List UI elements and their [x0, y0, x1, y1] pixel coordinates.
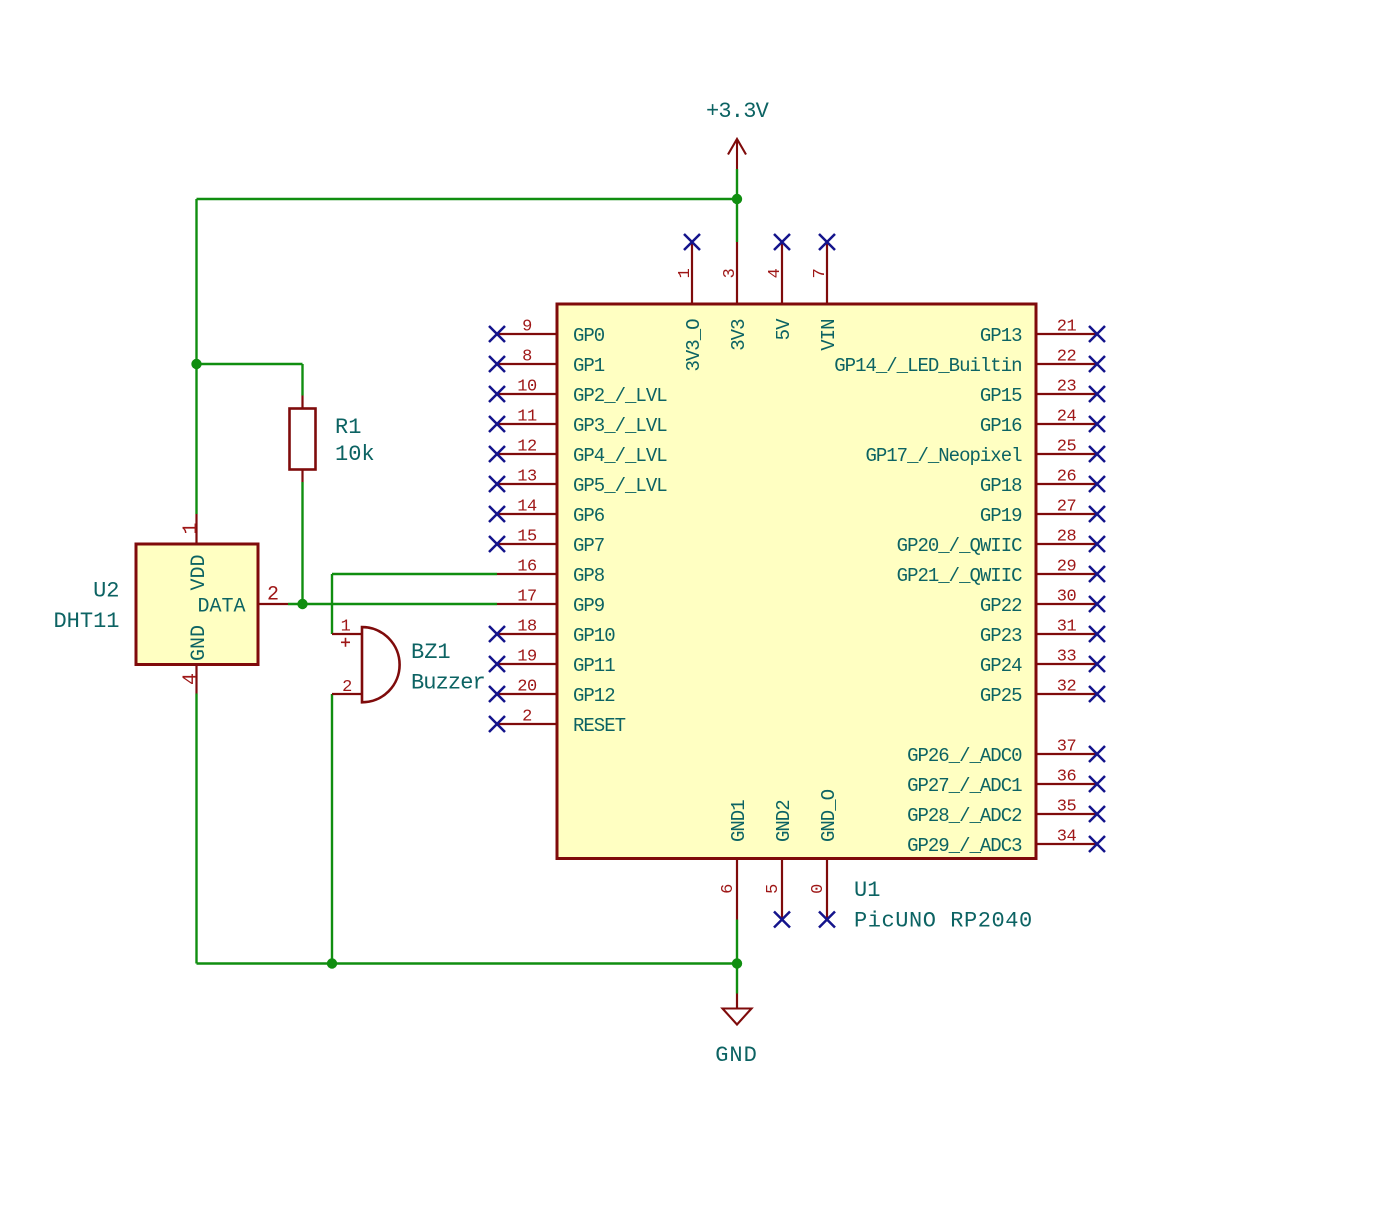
svg-text:2: 2: [522, 708, 532, 727]
svg-text:23: 23: [1057, 378, 1077, 397]
junction R1 / DATA / GP9 node: [297, 599, 307, 609]
svg-text:GP1: GP1: [573, 355, 605, 377]
svg-text:GP24: GP24: [980, 655, 1022, 677]
svg-text:GP23: GP23: [980, 625, 1022, 647]
svg-text:GP11: GP11: [573, 655, 615, 677]
svg-text:GP2_/_LVL: GP2_/_LVL: [573, 385, 667, 407]
U1 pin 31 (GP23): [980, 618, 1105, 648]
U1 pin 27 (GP19): [980, 498, 1105, 528]
U1 pin 7 (VIN): [811, 234, 840, 351]
U1 pin 25 (GP17_/_Neopixel): [865, 438, 1105, 468]
svg-text:R1: R1: [335, 415, 361, 440]
svg-text:1: 1: [180, 522, 203, 534]
U1 pin 32 (GP25): [980, 678, 1105, 708]
svg-text:GP20_/_QWIIC: GP20_/_QWIIC: [897, 535, 1022, 557]
U1 pin 33 (GP24): [980, 648, 1105, 678]
svg-text:3: 3: [721, 268, 740, 278]
svg-text:GP13: GP13: [980, 325, 1022, 347]
svg-text:15: 15: [517, 528, 537, 547]
U1 pin 35 (GP28_/_ADC2): [907, 798, 1105, 828]
svg-text:13: 13: [517, 468, 537, 487]
svg-text:30: 30: [1057, 588, 1077, 607]
wire junction to R1 horizontal: [197, 363, 303, 365]
U1 pin 17 (GP9): [497, 588, 605, 618]
svg-text:4: 4: [766, 268, 785, 278]
svg-text:GP12: GP12: [573, 685, 615, 707]
svg-text:32: 32: [1057, 678, 1076, 697]
wire GND net bottom horizontal: [197, 962, 738, 964]
svg-text:21: 21: [1057, 318, 1077, 337]
U1 pin 34 (GP29_/_ADC3): [907, 828, 1105, 858]
U1 pin 22 (GP14_/_LED_Builtin): [834, 348, 1105, 378]
svg-text:GP29_/_ADC3: GP29_/_ADC3: [907, 835, 1022, 857]
svg-text:10: 10: [517, 378, 537, 397]
svg-text:GP26_/_ADC0: GP26_/_ADC0: [907, 745, 1022, 767]
wire buzzer pin 2 down: [331, 694, 333, 964]
svg-text:8: 8: [522, 348, 532, 367]
wire R1 bottom to DATA net: [301, 482, 303, 604]
U2 pin 4 (GND): [180, 625, 211, 694]
svg-text:DATA: DATA: [198, 595, 246, 618]
U2 pin 2 (DATA): [198, 584, 289, 619]
svg-text:GP3_/_LVL: GP3_/_LVL: [573, 415, 667, 437]
U1 pin 30 (GP22): [980, 588, 1105, 618]
svg-text:GND: GND: [715, 1043, 758, 1068]
svg-text:GP0: GP0: [573, 325, 605, 347]
svg-text:2: 2: [267, 584, 279, 607]
svg-text:36: 36: [1057, 768, 1077, 787]
junction buzzer pin 2 / GND net: [327, 958, 337, 968]
U1 pin 20 (GP12): [489, 678, 615, 708]
svg-text:Buzzer: Buzzer: [411, 670, 485, 695]
svg-text:9: 9: [522, 318, 532, 337]
svg-text:U1: U1: [854, 878, 880, 903]
svg-text:18: 18: [517, 618, 537, 637]
svg-text:24: 24: [1057, 408, 1077, 427]
U1 pin 2 (RESET): [489, 708, 626, 738]
U1 pin 21 (GP13): [980, 318, 1105, 348]
svg-text:VIN: VIN: [818, 320, 840, 351]
U1 pin 16 (GP8): [497, 558, 605, 588]
svg-text:26: 26: [1057, 468, 1077, 487]
U1 pin 4 (5V): [766, 234, 795, 340]
svg-text:GP14_/_LED_Builtin: GP14_/_LED_Builtin: [834, 355, 1021, 377]
R1 pin 1 (top): [301, 396, 303, 409]
wire down to R1 top: [301, 364, 303, 396]
svg-text:GP28_/_ADC2: GP28_/_ADC2: [907, 805, 1022, 827]
svg-text:5V: 5V: [773, 318, 795, 340]
wire VDD net left vertical: [195, 199, 197, 514]
svg-text:GP6: GP6: [573, 505, 605, 527]
svg-text:GP18: GP18: [980, 475, 1022, 497]
svg-text:GP5_/_LVL: GP5_/_LVL: [573, 475, 667, 497]
wire to GND symbol: [736, 964, 738, 994]
U1 pin 19 (GP11): [489, 648, 615, 678]
svg-text:DHT11: DHT11: [53, 609, 119, 634]
U1 pin 11 (GP3_/_LVL): [489, 408, 667, 438]
IC U1 PicUNO RP2040 body: [557, 304, 1036, 859]
svg-text:5: 5: [764, 884, 783, 894]
junction VDD net to R1 branch: [191, 359, 201, 369]
svg-text:33: 33: [1057, 648, 1077, 667]
U1 pin 12 (GP4_/_LVL): [489, 438, 667, 468]
svg-text:RESET: RESET: [573, 715, 626, 737]
U1 pin 18 (GP10): [489, 618, 615, 648]
svg-text:14: 14: [517, 498, 537, 517]
junction at 3V3 / VDD net: [732, 194, 742, 204]
buzzer BZ1 body: [362, 627, 400, 702]
svg-text:VDD: VDD: [188, 555, 211, 591]
wire U2 GND down: [195, 694, 197, 964]
svg-text:GP25: GP25: [980, 685, 1022, 707]
U1 pin 24 (GP16): [980, 408, 1105, 438]
svg-text:0: 0: [809, 884, 828, 894]
svg-text:20: 20: [517, 678, 537, 697]
U1 pin 23 (GP15): [980, 378, 1105, 408]
svg-text:7: 7: [811, 269, 830, 279]
svg-text:2: 2: [342, 678, 352, 697]
svg-text:11: 11: [517, 408, 537, 427]
svg-text:35: 35: [1057, 798, 1077, 817]
svg-text:22: 22: [1057, 348, 1076, 367]
svg-text:12: 12: [517, 438, 536, 457]
junction GND1 / GND net: [732, 958, 742, 968]
svg-text:1: 1: [676, 268, 695, 278]
svg-text:GP10: GP10: [573, 625, 615, 647]
wire VDD net top horizontal: [197, 198, 738, 200]
svg-text:GND1: GND1: [728, 800, 750, 842]
U1 pin 28 (GP20_/_QWIIC): [897, 528, 1105, 558]
U1 pin 13 (GP5_/_LVL): [489, 468, 667, 498]
svg-text:3V3: 3V3: [728, 319, 750, 351]
svg-text:+3.3V: +3.3V: [706, 99, 770, 124]
svg-text:GND: GND: [188, 625, 211, 661]
svg-text:GP15: GP15: [980, 385, 1022, 407]
wire GP8 down to buzzer pin 1: [331, 574, 333, 634]
svg-text:GP8: GP8: [573, 565, 605, 587]
U1 pin 15 (GP7): [489, 528, 604, 558]
svg-text:GP22: GP22: [980, 595, 1022, 617]
svg-text:34: 34: [1057, 828, 1077, 847]
svg-text:37: 37: [1057, 738, 1076, 757]
U1 pin 10 (GP2_/_LVL): [489, 378, 667, 408]
resistor R1 body: [290, 409, 316, 470]
U1 pin 3 (3V3): [721, 242, 750, 351]
power symbol +3.3V: [706, 99, 770, 169]
svg-text:BZ1: BZ1: [411, 640, 451, 665]
wire DATA to GP9: [288, 603, 497, 605]
svg-text:GND2: GND2: [773, 800, 795, 842]
wire 3V3 pin to +3.3V symbol: [736, 169, 738, 242]
svg-text:27: 27: [1057, 498, 1076, 517]
svg-text:3V3_O: 3V3_O: [683, 319, 705, 372]
svg-text:31: 31: [1057, 618, 1077, 637]
svg-text:GP4_/_LVL: GP4_/_LVL: [573, 445, 667, 467]
svg-text:19: 19: [517, 648, 537, 667]
U1 pin 8 (GP1): [489, 348, 605, 378]
U1 pin 29 (GP21_/_QWIIC): [897, 558, 1105, 588]
svg-text:GP27_/_ADC1: GP27_/_ADC1: [907, 775, 1022, 797]
svg-text:28: 28: [1057, 528, 1077, 547]
svg-text:10k: 10k: [335, 442, 375, 467]
BZ1 pin 2: [332, 678, 362, 697]
svg-text:16: 16: [517, 558, 537, 577]
ground symbol GND: [715, 994, 758, 1069]
U1 pin 6 (GND1): [719, 800, 750, 920]
svg-text:U2: U2: [93, 579, 119, 604]
svg-text:6: 6: [719, 884, 738, 894]
svg-text:29: 29: [1057, 558, 1077, 577]
U2 pin 1 (VDD): [180, 514, 211, 591]
svg-text:GP21_/_QWIIC: GP21_/_QWIIC: [897, 565, 1022, 587]
U1 pin 14 (GP6): [489, 498, 605, 528]
svg-text:4: 4: [180, 673, 203, 685]
svg-text:GND_O: GND_O: [818, 789, 840, 842]
svg-text:25: 25: [1057, 438, 1077, 457]
svg-text:GP16: GP16: [980, 415, 1022, 437]
U1 pin 5 (GND2): [764, 800, 795, 928]
svg-text:GP19: GP19: [980, 505, 1022, 527]
U1 pin 26 (GP18): [980, 468, 1105, 498]
wire GP8 horizontal: [332, 573, 497, 575]
svg-text:17: 17: [517, 588, 536, 607]
svg-text:GP17_/_Neopixel: GP17_/_Neopixel: [865, 445, 1022, 467]
U1 pin 37 (GP26_/_ADC0): [907, 738, 1105, 768]
BZ1 pin 1 (+): [332, 618, 362, 647]
U1 pin 0 (GND_O): [809, 789, 840, 927]
svg-text:PicUNO RP2040: PicUNO RP2040: [854, 909, 1033, 934]
R1 pin 2 (bottom): [301, 470, 303, 483]
U1 pin 1 (3V3_O): [676, 234, 705, 372]
wire GND1 pin down: [736, 920, 738, 964]
sensor U2 DHT11 body: [136, 544, 258, 665]
svg-text:1: 1: [341, 618, 351, 637]
svg-text:GP9: GP9: [573, 595, 605, 617]
svg-text:GP7: GP7: [573, 535, 604, 557]
U1 pin 36 (GP27_/_ADC1): [907, 768, 1105, 798]
U1 pin 9 (GP0): [489, 318, 605, 348]
